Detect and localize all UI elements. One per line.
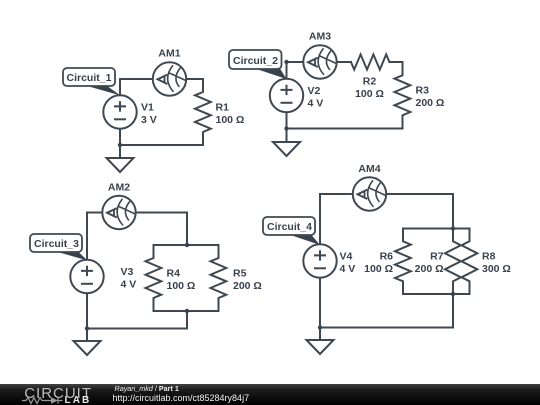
svg-text:R7: R7 (430, 250, 444, 262)
svg-text:Circuit_1: Circuit_1 (67, 72, 112, 84)
node dot C4 bottom (451, 292, 455, 296)
svg-text:LAB: LAB (65, 395, 92, 405)
voltage source V1 (103, 95, 136, 128)
svg-text:V3: V3 (121, 266, 134, 278)
resistor R4 (146, 245, 162, 311)
wire V1 bottom (119, 129, 121, 145)
node dot C3 top (185, 243, 189, 247)
svg-text:4 V: 4 V (340, 263, 356, 275)
svg-text:100 Ω: 100 Ω (355, 88, 384, 100)
voltage source V2 (270, 79, 303, 112)
svg-text:200 Ω: 200 Ω (416, 97, 445, 109)
flag label Circuit_2 (255, 69, 287, 80)
flag label Circuit_4 (289, 235, 320, 246)
svg-text:Circuit_4: Circuit_4 (267, 221, 312, 233)
resistor R7 (445, 229, 461, 295)
svg-text:AM4: AM4 (358, 163, 380, 175)
svg-text:R3: R3 (416, 85, 430, 97)
ammeter AM2 (102, 196, 135, 229)
ground C2 (286, 129, 288, 143)
wire V4 top to AM4 left (320, 194, 353, 244)
wire parallel to bottom rail (186, 311, 188, 329)
svg-text:4 V: 4 V (308, 97, 324, 109)
wire AM2 left to V3 top (87, 213, 102, 260)
wire V4 bottom (319, 278, 321, 328)
resistor R3 (395, 62, 411, 129)
resistor R5 (211, 245, 227, 311)
resistor R1 (195, 79, 211, 145)
svg-text:V1: V1 (141, 101, 154, 113)
wire bottom rail C3 (87, 328, 187, 330)
svg-text:300 Ω: 300 Ω (482, 263, 511, 275)
wire AM2 right to parallel top (136, 213, 187, 246)
wire bottom rail C4 (320, 327, 453, 329)
svg-text:100 Ω: 100 Ω (216, 114, 245, 126)
resistor R2 (351, 54, 389, 69)
node dot C3 gnd (85, 326, 89, 330)
wire bottom rail C2 (287, 128, 403, 130)
flag label Circuit_3 (56, 252, 88, 261)
node dot C2 top (284, 60, 288, 64)
node dot C2 bottom (284, 126, 288, 130)
wire bottom rail C1 (120, 144, 203, 146)
svg-text:R1: R1 (216, 101, 230, 113)
svg-text:Circuit_2: Circuit_2 (233, 55, 278, 67)
wire parallel to bottom rail C4 (452, 294, 454, 328)
ground C1 (119, 145, 121, 158)
svg-text:AM3: AM3 (309, 31, 331, 43)
logo resistor-diode icon (22, 397, 63, 404)
svg-text:200 Ω: 200 Ω (415, 263, 444, 275)
svg-text:3 V: 3 V (141, 114, 157, 126)
wire AM1 right to R1 top (186, 78, 203, 80)
svg-text:R6: R6 (380, 250, 394, 262)
wire parallel top rail C3 (154, 244, 219, 246)
ground C3 (86, 329, 88, 342)
svg-text:R4: R4 (167, 267, 181, 279)
ammeter AM3 (303, 45, 336, 78)
wire AM3 right to R2 left (337, 61, 351, 63)
ammeter AM1 (153, 62, 186, 95)
svg-text:R5: R5 (233, 267, 247, 279)
svg-text:V2: V2 (308, 85, 321, 97)
svg-text:200 Ω: 200 Ω (233, 280, 262, 292)
node dot C4 gnd (318, 325, 322, 329)
wire V1 top to AM1 left (120, 79, 153, 95)
node dot C4 top (451, 226, 455, 230)
ammeter AM4 (353, 177, 386, 210)
wire R2 right to R3 top (389, 61, 402, 63)
wire parallel top rail C4 (403, 228, 470, 230)
wire V2 bottom (286, 112, 288, 128)
svg-text:4 V: 4 V (121, 278, 137, 290)
svg-text:AM2: AM2 (108, 182, 130, 194)
svg-text:R8: R8 (482, 250, 496, 262)
svg-text:R2: R2 (363, 75, 377, 87)
svg-text:100 Ω: 100 Ω (364, 263, 393, 275)
node dot C3 bottom (185, 309, 189, 313)
resistor R8 (462, 229, 478, 295)
ground C4 (319, 328, 321, 341)
wire parallel bottom rail C3 (154, 310, 219, 312)
svg-text:V4: V4 (340, 250, 353, 262)
voltage source V3 (70, 260, 103, 293)
node dot C1 (118, 143, 122, 147)
svg-text:100 Ω: 100 Ω (167, 280, 196, 292)
wire V2 top to AM3 left (287, 62, 304, 79)
wire V3 bottom (86, 293, 88, 328)
svg-text:AM1: AM1 (158, 48, 180, 60)
wire AM4 right to parallel top (386, 194, 453, 229)
wire parallel bottom rail C4 (403, 293, 470, 295)
svg-text:http://circuitlab.com/ct85284r: http://circuitlab.com/ct85284ry84j7 (113, 393, 250, 403)
svg-text:Circuit_3: Circuit_3 (34, 238, 79, 250)
resistor R6 (395, 229, 411, 295)
svg-text:Rayan_mkd / Part 1: Rayan_mkd / Part 1 (115, 384, 179, 393)
flag label Circuit_1 (82, 85, 121, 96)
voltage source V4 (303, 244, 336, 277)
